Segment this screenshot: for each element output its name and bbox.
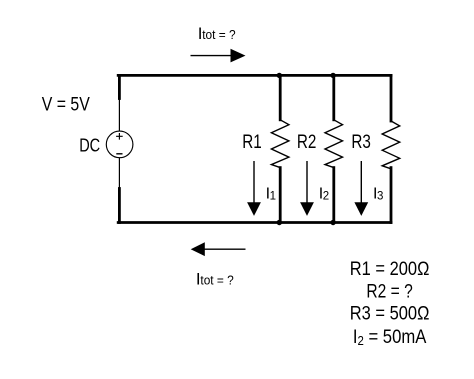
svg-text:R2: R2 bbox=[297, 132, 317, 153]
svg-text:R2 = ?: R2 = ? bbox=[366, 281, 412, 302]
svg-text:2: 2 bbox=[323, 191, 329, 203]
svg-text:1: 1 bbox=[270, 191, 276, 203]
svg-text:V = 5V: V = 5V bbox=[42, 94, 90, 115]
svg-text:R3: R3 bbox=[351, 132, 371, 153]
svg-text:3: 3 bbox=[377, 191, 383, 203]
svg-text:tot = ?: tot = ? bbox=[200, 273, 233, 287]
svg-text:DC: DC bbox=[79, 135, 100, 156]
svg-text:R3 = 500Ω: R3 = 500Ω bbox=[350, 304, 430, 325]
svg-text:R1: R1 bbox=[242, 132, 261, 153]
svg-text:I2 = 50mA: I2 = 50mA bbox=[353, 327, 427, 348]
svg-text:tot = ?: tot = ? bbox=[202, 28, 235, 42]
svg-text:R1 = 200Ω: R1 = 200Ω bbox=[350, 259, 430, 280]
